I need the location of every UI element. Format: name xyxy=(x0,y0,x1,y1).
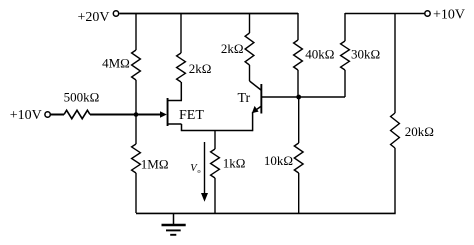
svg-text:40kΩ: 40kΩ xyxy=(305,46,334,61)
svg-text:20kΩ: 20kΩ xyxy=(405,124,434,139)
svg-text:30kΩ: 30kΩ xyxy=(351,46,380,61)
svg-text:+10V: +10V xyxy=(433,8,465,23)
svg-text:4MΩ: 4MΩ xyxy=(102,56,130,71)
svg-text:FET: FET xyxy=(179,108,204,123)
svg-text:10kΩ: 10kΩ xyxy=(264,153,293,168)
svg-text:1MΩ: 1MΩ xyxy=(141,156,169,171)
svg-text:2kΩ: 2kΩ xyxy=(189,61,212,76)
svg-text:1kΩ: 1kΩ xyxy=(223,156,246,171)
svg-text:+10V: +10V xyxy=(10,108,42,123)
svg-text:+20V: +20V xyxy=(77,10,109,25)
svg-text:2kΩ: 2kΩ xyxy=(221,41,244,56)
svg-text:500kΩ: 500kΩ xyxy=(64,89,100,104)
svg-text:Tr: Tr xyxy=(238,91,251,106)
svg-text:o: o xyxy=(197,168,200,175)
